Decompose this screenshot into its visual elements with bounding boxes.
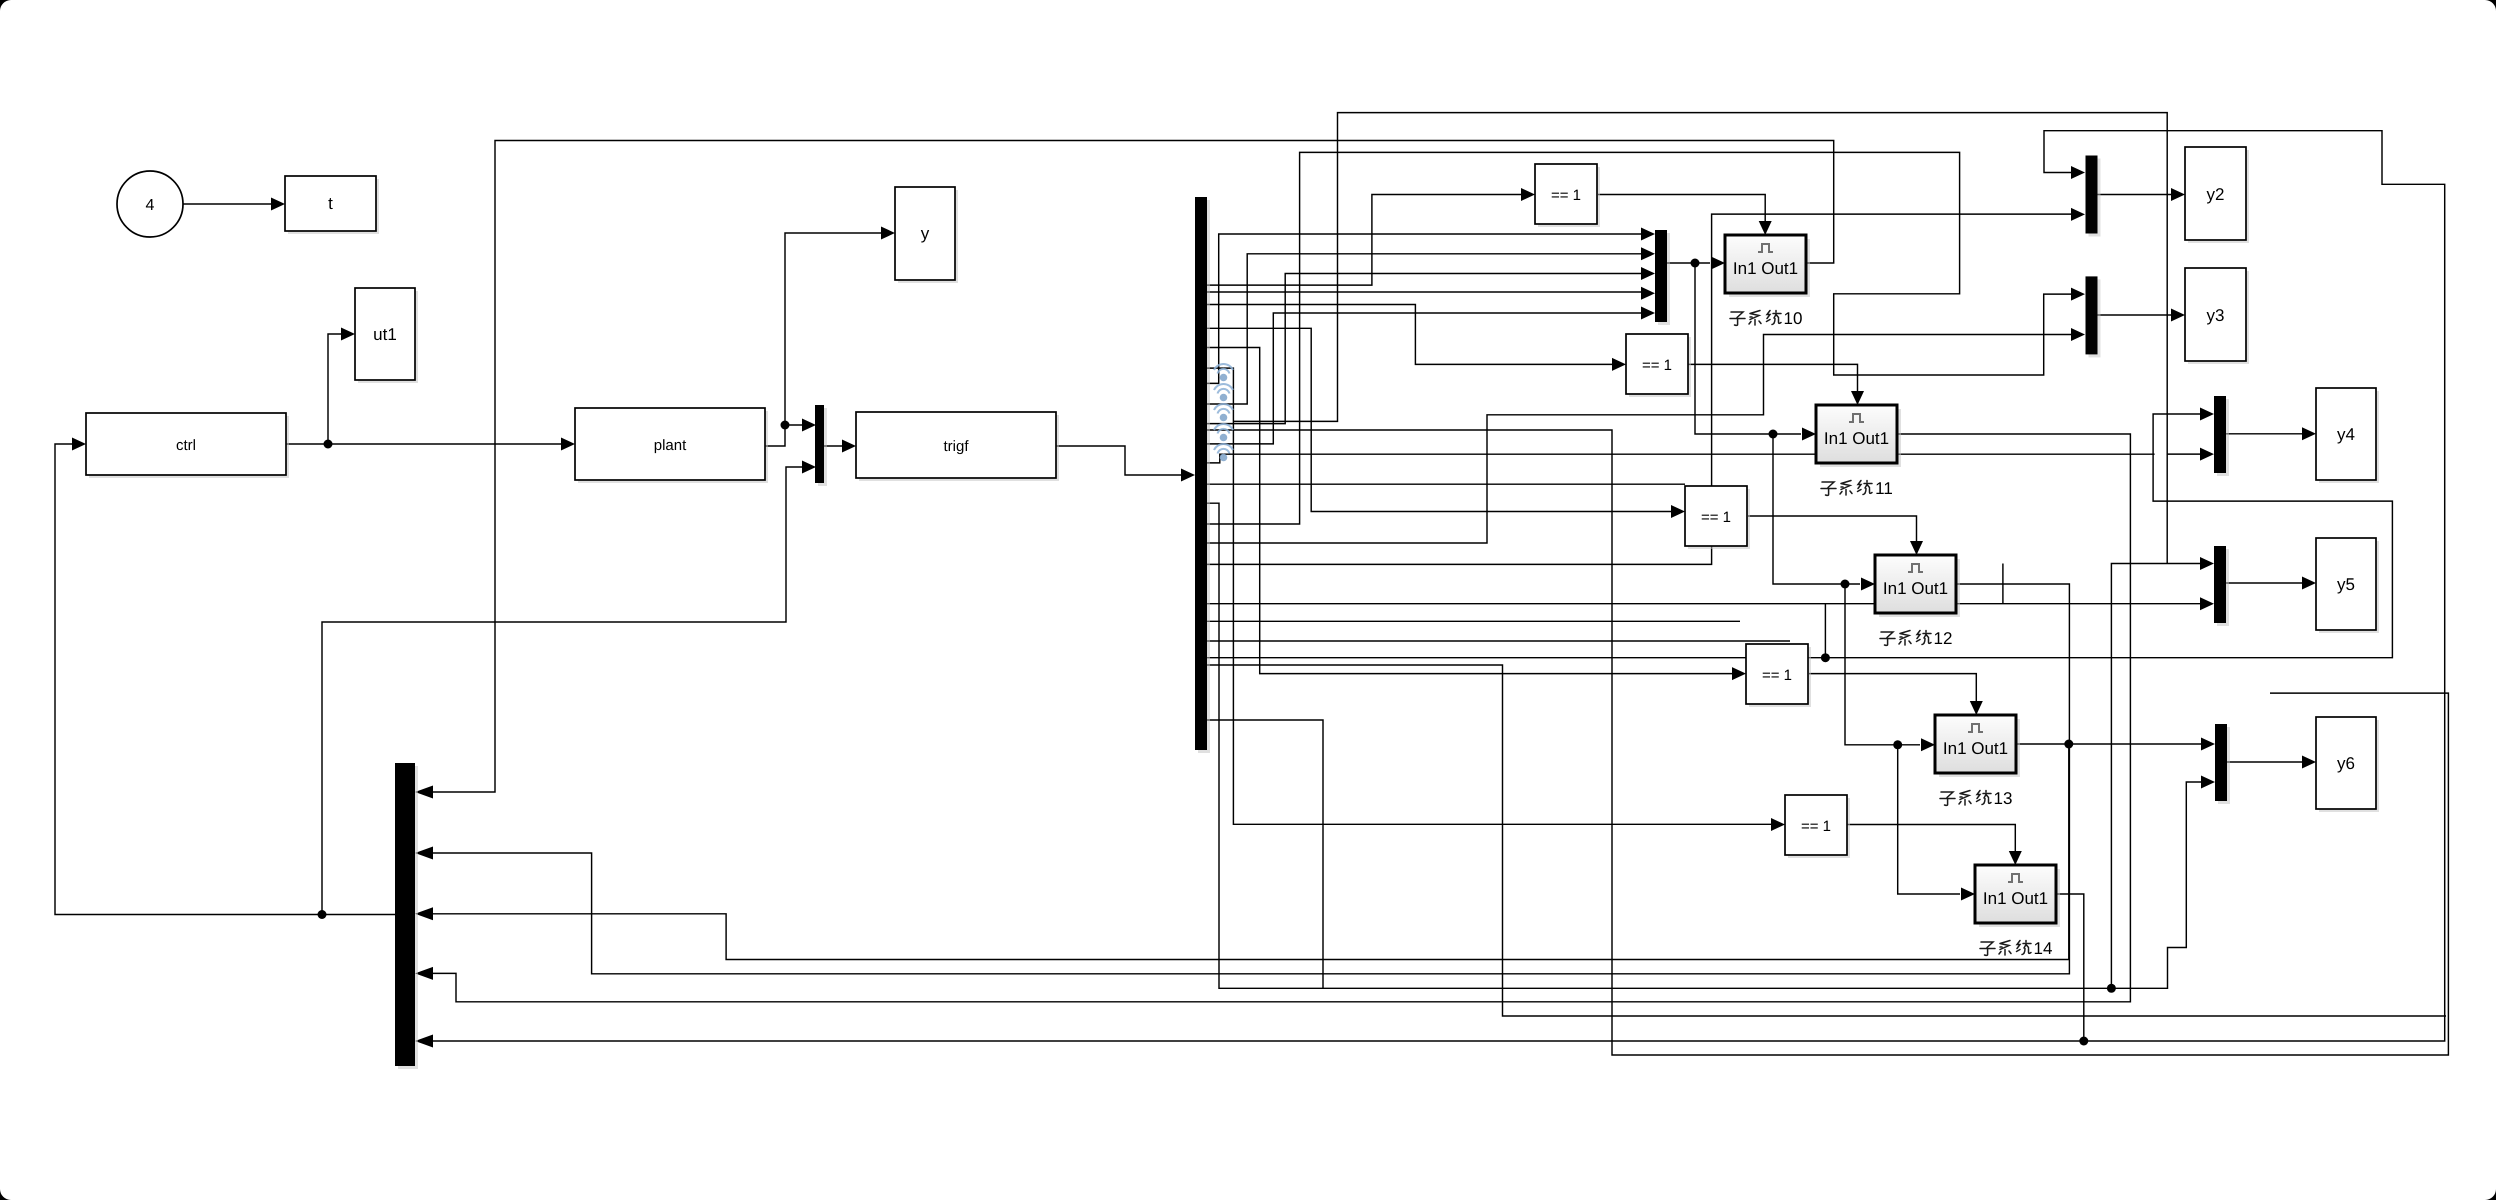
outport y2 xyxy=(2188,150,2249,243)
wire: ctrl output to plant with branch to ut1 xyxy=(286,334,561,444)
svg-text:In1 Out1: In1 Out1 xyxy=(1733,259,1798,278)
window rounded corners xyxy=(0,0,11,11)
wire: y2 mux output xyxy=(2097,194,2172,196)
svg-text:== 1: == 1 xyxy=(1551,187,1581,204)
subsystem11 xyxy=(1820,409,1901,467)
svg-text:ut1: ut1 xyxy=(373,325,397,344)
wire: compare5 output to subsystem14 trigger xyxy=(1846,825,2015,852)
wire: compare3 output to subsystem12 trigger xyxy=(1748,516,1917,541)
wire: trigf output to big demux xyxy=(1056,446,1181,475)
wire: bottom long loop from demux xyxy=(1207,430,2449,1055)
wire: compare4 output to subsystem13 trigger xyxy=(1809,674,1976,701)
compare block 2 xyxy=(1629,337,1691,397)
wire: demux out to mux6 input 1 xyxy=(1207,234,1642,383)
svg-text:y6: y6 xyxy=(2337,754,2355,773)
compare block 4 xyxy=(1749,647,1811,707)
wire: left mux output feedback to ctrl with branch to mux A input 2 xyxy=(55,444,802,915)
y2 mux xyxy=(2089,159,2101,237)
wire: subsystem13 Out1 to y6 mux input 1 and bus to left mux input 3 xyxy=(433,744,2201,960)
wire: mux6 output to subsystem In1 chain xyxy=(1666,263,1960,894)
subsystem ctrl xyxy=(89,416,289,478)
y3 mux xyxy=(2089,279,2101,357)
compare block 3 xyxy=(1688,489,1750,549)
wire: demux out to compare4 xyxy=(1207,348,1733,674)
svg-text:trigf: trigf xyxy=(943,438,969,455)
svg-text:y3: y3 xyxy=(2207,306,2225,325)
svg-text:ctrl: ctrl xyxy=(176,437,196,454)
svg-text:10: 10 xyxy=(1784,309,1803,328)
outport y xyxy=(898,190,958,283)
wire: demux out to y2 mux input 2 with bus branch xyxy=(1207,214,2447,1016)
mux6 before subsystem10 xyxy=(1658,233,1670,325)
wire: subsystem10 Out1 feedback over top to left mux input 1 xyxy=(433,141,1834,793)
outport t xyxy=(288,179,379,234)
svg-text:4: 4 xyxy=(146,197,155,214)
outport y5 xyxy=(2319,541,2379,633)
wire: subsystem14 Out1 bus to left mux input 5 xyxy=(433,894,2084,1041)
wire: y5 mux output xyxy=(2226,582,2302,584)
outport y6 xyxy=(2319,720,2379,812)
wire: subsystem12 Out1 to y5 mux input 2 and bus to left mux input 2 xyxy=(433,584,2069,974)
wire: y4 mux output xyxy=(2226,433,2302,435)
wire: subsystem11 Out1 loop under y4 to y4 mux input 2 and bus to left mux input 4 xyxy=(433,434,2130,1002)
wire: demux out to y3 mux input 2 xyxy=(1207,335,2072,544)
svg-text:t: t xyxy=(328,194,333,213)
wire: demux out to compare1 xyxy=(1207,195,1522,286)
wire: y3 mux output xyxy=(2097,314,2172,316)
svg-text:In1 Out1: In1 Out1 xyxy=(1943,739,2008,758)
wire: y6 mux output xyxy=(2227,761,2302,763)
svg-text:== 1: == 1 xyxy=(1801,818,1831,835)
svg-text:In1 Out1: In1 Out1 xyxy=(1883,579,1948,598)
constant block 4 xyxy=(117,171,183,237)
compare block 1 xyxy=(1538,167,1600,227)
svg-text:== 1: == 1 xyxy=(1642,357,1672,374)
subsystem13 xyxy=(1939,719,2020,777)
svg-text:In1 Out1: In1 Out1 xyxy=(1824,429,1889,448)
svg-text:11: 11 xyxy=(1875,479,1893,498)
wire: demux out to compare3 xyxy=(1207,328,1672,511)
wire: demux out to mux6 input 4 xyxy=(1207,291,1642,293)
svg-text:14: 14 xyxy=(2034,939,2053,958)
wire: demux out short line y484 xyxy=(1207,483,1686,485)
svg-text:y: y xyxy=(921,224,930,243)
wire: demux out to mux6 input 2 xyxy=(1207,254,1642,404)
wire: demux out to compare5 xyxy=(1207,368,1772,824)
wire: compare1 output to subsystem10 trigger xyxy=(1598,195,1765,222)
subsystem trigf xyxy=(859,415,1059,481)
big demux bar xyxy=(1198,200,1210,753)
wire: demux out staircase to y3 mux input 1 xyxy=(1207,152,2072,524)
svg-text:y4: y4 xyxy=(2337,425,2355,444)
subsystem10 xyxy=(1729,239,1810,297)
outport ut1 xyxy=(358,291,418,383)
outport y3 xyxy=(2188,271,2249,364)
wire: demux out to compare2 xyxy=(1207,305,1613,365)
mux A xyxy=(818,408,827,486)
compare block 5 xyxy=(1788,798,1850,858)
outport y4 xyxy=(2319,391,2379,483)
wire: plant output to mux and y xyxy=(765,233,881,446)
wire: demux badge jog up to top line and y4 mux input 1 xyxy=(1233,113,2200,455)
subsystem14 xyxy=(1979,869,2060,927)
svg-text:In1 Out1: In1 Out1 xyxy=(1983,889,2048,908)
wire: demux out down to bus and y6 mux input 2 xyxy=(1207,503,2202,988)
y4 mux xyxy=(2217,399,2229,476)
subsystem plant xyxy=(578,411,768,483)
svg-text:y5: y5 xyxy=(2337,575,2355,594)
y5 mux xyxy=(2217,549,2229,626)
svg-text:plant: plant xyxy=(654,437,687,454)
svg-text:12: 12 xyxy=(1934,629,1953,648)
wire: mux A output to trigf xyxy=(824,445,842,447)
svg-text:y2: y2 xyxy=(2207,185,2225,204)
signal logging badges xyxy=(1214,364,1233,454)
svg-text:== 1: == 1 xyxy=(1762,667,1792,684)
big left mux xyxy=(398,766,418,1069)
svg-text:== 1: == 1 xyxy=(1701,509,1731,526)
wire: demux out to mux6 input 5 xyxy=(1207,313,1642,444)
wire: demux out staircase to y5 mux input 1 xyxy=(1207,603,2201,605)
wire: compare2 output to subsystem11 trigger xyxy=(1688,364,1858,391)
wire: constant 4 to t xyxy=(183,203,271,205)
wire: demux out long line y454 xyxy=(1207,454,2155,463)
y6 mux xyxy=(2218,727,2230,804)
wire: demux out to mux6 input 3 xyxy=(1207,274,1642,424)
subsystem12 xyxy=(1879,559,1960,617)
svg-text:13: 13 xyxy=(1994,789,2013,808)
